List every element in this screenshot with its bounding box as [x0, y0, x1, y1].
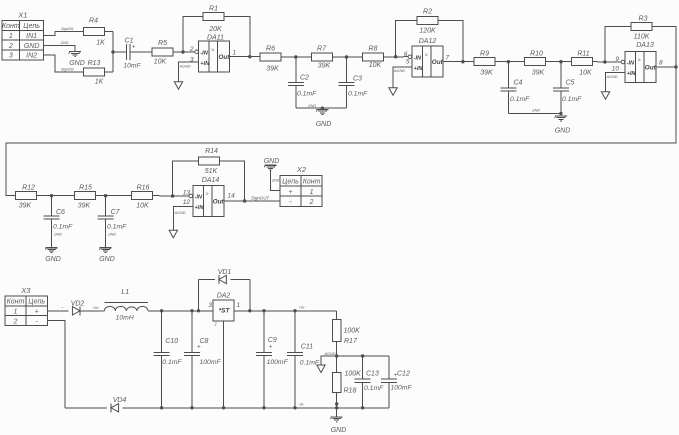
- diode VD4: [111, 403, 119, 412]
- capacitor C7: [98, 216, 114, 219]
- value 0.1mF of C13: [364, 385, 384, 392]
- label R7: [317, 46, 327, 53]
- label GND (C4C5): [555, 128, 571, 135]
- svg-text:R5: R5: [158, 40, 167, 47]
- svg-text:-9v: -9v: [299, 403, 304, 407]
- ground AGND triangle (divider): [317, 365, 325, 373]
- label VD2: [71, 301, 85, 308]
- value 100K of R18: [345, 371, 362, 378]
- svg-text:X2: X2: [296, 165, 307, 174]
- resistor R7: [311, 53, 332, 61]
- wire C3 up: [346, 57, 348, 83]
- node C9 bottom: [262, 406, 265, 409]
- capacitor C1: [126, 44, 130, 60]
- ground AGND triangle (DA11): [174, 82, 182, 90]
- pin 5 label DA12: [406, 59, 410, 66]
- svg-text:C13: C13: [366, 371, 379, 378]
- svg-text:-IN: -IN: [627, 61, 635, 67]
- wire C4-C5 ground bus: [508, 113, 561, 115]
- svg-text:>: >: [638, 58, 641, 64]
- svg-text:1K: 1K: [96, 40, 105, 47]
- wire bottom rail left: [65, 407, 107, 409]
- node DA14 input junction: [171, 194, 174, 197]
- wire R4 to node: [104, 31, 113, 33]
- svg-text:+: +: [288, 189, 292, 196]
- resistor R8: [363, 53, 384, 61]
- svg-text:AGND: AGND: [324, 352, 336, 356]
- svg-text:3: 3: [208, 302, 212, 309]
- node C3 junction: [345, 55, 348, 58]
- wire C9 top: [263, 311, 265, 353]
- svg-text:0.1mF: 0.1mF: [562, 96, 582, 103]
- svg-text:2: 2: [189, 46, 194, 53]
- capacitor C8: [184, 352, 200, 355]
- wire R12 to R15: [37, 195, 75, 197]
- wire feedback R1 right: [224, 17, 250, 57]
- wire X3 minus down: [47, 321, 65, 408]
- svg-text:1K: 1K: [95, 79, 104, 86]
- wire AGND bus right: [337, 355, 389, 357]
- wire AGND stub: [321, 356, 337, 365]
- svg-text:GND: GND: [24, 43, 40, 50]
- wire C12 drop: [388, 356, 390, 379]
- value 0.1mF of C2: [297, 91, 317, 98]
- value 10K of R16: [136, 203, 149, 210]
- label DA2: [217, 292, 231, 299]
- label GND (X1): [69, 60, 85, 67]
- wire VD1 left leg: [198, 280, 200, 311]
- svg-text:10K: 10K: [369, 62, 382, 69]
- svg-text:R10: R10: [530, 51, 543, 58]
- net label +9v (rail): [299, 306, 305, 310]
- svg-text:+IN: +IN: [200, 61, 210, 67]
- svg-text:GND: GND: [272, 179, 280, 183]
- label C6: [56, 209, 65, 216]
- node C6 junction: [50, 194, 53, 197]
- svg-text:10mH: 10mH: [116, 315, 134, 322]
- value 100K of R17: [344, 328, 361, 335]
- net label SignOUT: [251, 195, 269, 200]
- label L1: [121, 289, 129, 296]
- wire DA14 output to X2: [224, 200, 280, 202]
- wire X1 pin3 to R13: [44, 55, 84, 72]
- label R1: [209, 6, 218, 13]
- svg-text:R18: R18: [344, 388, 357, 395]
- resistor R1: [203, 13, 224, 21]
- svg-text:GND: GND: [45, 256, 61, 263]
- svg-text:13: 13: [183, 190, 191, 197]
- svg-text:110K: 110K: [634, 34, 650, 41]
- wire feedback R3 left: [605, 27, 631, 63]
- pin 7 label DA12: [446, 55, 450, 62]
- svg-text:GND: GND: [99, 256, 115, 263]
- wire C11 top: [294, 311, 296, 353]
- node R18 bottom: [335, 406, 338, 409]
- node C5 ground junction: [559, 112, 562, 115]
- ground AGND triangle (DA14): [169, 230, 177, 238]
- label DA11: [207, 35, 224, 42]
- wire L1 to DA2: [148, 310, 213, 312]
- svg-text:AGND: AGND: [174, 211, 186, 215]
- wire C9 bottom: [263, 355, 265, 408]
- node sum junction: [111, 50, 114, 53]
- svg-text:DA14: DA14: [202, 177, 220, 184]
- label C7: [111, 209, 121, 216]
- svg-text:39K: 39K: [318, 63, 331, 70]
- wire feedback R14 right: [220, 161, 245, 201]
- svg-text:+: +: [269, 344, 273, 351]
- value 39K of R12: [19, 203, 32, 210]
- capacitor C5: [553, 88, 569, 91]
- wire DA11 pin3 to AGND: [179, 62, 199, 81]
- svg-text:SignIN1: SignIN1: [61, 27, 74, 31]
- node C13 top: [361, 354, 364, 357]
- wire feedback R3 right: [652, 27, 676, 68]
- wire R16 to DA14: [152, 195, 191, 197]
- node C11 bottom: [293, 406, 296, 409]
- resistor R17: [333, 319, 341, 341]
- svg-text:GND: GND: [331, 427, 347, 434]
- svg-text:R4: R4: [89, 18, 98, 25]
- label C13: [366, 371, 379, 378]
- pin 8 label DA13: [659, 60, 663, 67]
- svg-text:10K: 10K: [136, 203, 149, 210]
- svg-text:Out: Out: [645, 65, 657, 72]
- label R15: [79, 185, 92, 192]
- svg-text:>: >: [211, 47, 214, 53]
- value 39K of R6: [266, 66, 279, 73]
- svg-text:0.1mF: 0.1mF: [53, 224, 73, 231]
- svg-text:1: 1: [310, 189, 314, 196]
- node DA14 output junction: [243, 199, 246, 202]
- svg-text:10: 10: [612, 65, 620, 72]
- diode VD2: [72, 306, 80, 315]
- resistor R9: [474, 58, 495, 66]
- svg-text:GND: GND: [54, 233, 62, 237]
- svg-text:2: 2: [309, 199, 314, 206]
- svg-text:120K: 120K: [419, 28, 436, 35]
- wire R6 to R7: [281, 56, 311, 58]
- svg-text:VD2: VD2: [71, 301, 85, 308]
- plus mark C1: [132, 43, 136, 50]
- svg-text:L1: L1: [121, 289, 129, 296]
- node C7 junction: [104, 194, 107, 197]
- pin 12 label DA14: [183, 199, 191, 206]
- op-amp U DA12: [408, 46, 443, 77]
- svg-text:IN1: IN1: [26, 33, 37, 40]
- svg-text:0.1mF: 0.1mF: [348, 91, 368, 98]
- pin 13 label DA14: [183, 190, 191, 197]
- pin 3 label DA2: [208, 302, 212, 309]
- resistor R2: [417, 17, 438, 25]
- svg-text:Цепь: Цепь: [28, 299, 45, 306]
- wire R17 to AGND node: [336, 342, 338, 373]
- net label AGND (DA11): [179, 65, 191, 69]
- op-amp U DA11: [195, 41, 230, 72]
- capacitor C13: [355, 379, 371, 382]
- connector X3: [5, 286, 47, 326]
- wire feedback R2 right: [438, 21, 463, 62]
- wire R7 to R8: [332, 56, 362, 58]
- wire C6 up: [51, 196, 53, 216]
- svg-text:GND: GND: [108, 233, 116, 237]
- svg-text:3: 3: [9, 53, 13, 60]
- value 10K of R11: [579, 70, 592, 77]
- value 39K of R15: [78, 203, 91, 210]
- wire C11 bottom: [294, 355, 296, 408]
- svg-text:+: +: [132, 43, 136, 50]
- wire C4 up: [507, 62, 509, 88]
- label GND (C6): [45, 256, 61, 263]
- wire C8 top: [191, 311, 193, 353]
- wire feedback R14 left: [173, 161, 199, 196]
- svg-text:*ST: *ST: [219, 307, 231, 314]
- svg-text:C11: C11: [301, 344, 313, 351]
- node DA2 pin2 bottom: [222, 406, 225, 409]
- value 1K of R13: [95, 79, 104, 86]
- svg-text:39K: 39K: [266, 66, 279, 73]
- node DA11 output junction: [248, 55, 251, 58]
- svg-text:100mF: 100mF: [200, 359, 222, 366]
- wire C6 down: [51, 219, 53, 247]
- ground GND (X2): [264, 165, 277, 170]
- svg-text:39K: 39K: [480, 70, 493, 77]
- diode VD1: [219, 275, 227, 284]
- plus mark C12: [394, 372, 398, 379]
- value 39K of R7: [318, 63, 331, 70]
- label C11: [301, 344, 313, 351]
- svg-text:-IN: -IN: [200, 50, 208, 56]
- wire feedback R1 left: [183, 17, 203, 52]
- node C11 junction top: [293, 309, 296, 312]
- label R14: [205, 148, 218, 155]
- node C4 junction: [507, 60, 510, 63]
- wire C2 down: [295, 86, 297, 109]
- svg-text:2: 2: [13, 318, 18, 325]
- net label AGND (DA14): [174, 211, 186, 215]
- svg-text:8: 8: [659, 60, 663, 67]
- svg-text:10K: 10K: [154, 59, 167, 66]
- net label GND (C4C5): [532, 109, 540, 113]
- svg-text:0.1mF: 0.1mF: [364, 385, 384, 392]
- value 0.1mF of C11: [300, 360, 320, 367]
- label R8: [369, 46, 378, 53]
- svg-text:R16: R16: [137, 185, 150, 192]
- svg-text:C5: C5: [566, 79, 575, 86]
- svg-text:39K: 39K: [19, 203, 32, 210]
- wire route right edge down: [6, 67, 676, 196]
- resistor R12: [16, 192, 37, 200]
- svg-text:Out: Out: [219, 54, 231, 61]
- label R3: [639, 16, 648, 23]
- connector X1: [2, 10, 44, 60]
- resistor R16: [131, 192, 152, 200]
- op-amp U DA14: [189, 186, 224, 217]
- wire DA13 pin10 to AGND: [606, 73, 626, 92]
- svg-text:10mF: 10mF: [123, 63, 141, 70]
- pin 1 label DA11: [233, 50, 237, 57]
- plus mark C8: [197, 344, 201, 351]
- label R10: [530, 51, 543, 58]
- svg-text:VD1: VD1: [218, 269, 232, 276]
- svg-text:DA12: DA12: [419, 38, 437, 45]
- net label GND (C2C3): [308, 104, 316, 108]
- node C2 junction: [294, 55, 297, 58]
- capacitor C4: [500, 88, 516, 91]
- label R6: [266, 46, 275, 53]
- node C10 junction top: [160, 309, 163, 312]
- wire VD1 right leg: [249, 280, 251, 311]
- svg-text:DA11: DA11: [207, 35, 224, 42]
- value 0.1mF of C4: [510, 96, 530, 103]
- capacitor C2: [288, 82, 304, 85]
- svg-text:100K: 100K: [344, 328, 361, 335]
- node AGND divider: [335, 354, 338, 357]
- svg-text:Конт: Конт: [2, 23, 20, 30]
- value 10mH of L1: [116, 315, 134, 322]
- svg-text:-IN: -IN: [414, 55, 422, 61]
- svg-text:R15: R15: [79, 185, 92, 192]
- resistor R14: [199, 157, 220, 165]
- value 120K of R2: [419, 28, 436, 35]
- resistor R18: [333, 372, 341, 392]
- ground GND (X1): [69, 52, 82, 57]
- svg-text:0.1mF: 0.1mF: [297, 91, 317, 98]
- label GND (C2C3): [316, 121, 332, 128]
- label C1: [125, 38, 134, 45]
- svg-text:51K: 51K: [205, 168, 218, 175]
- svg-text:Цепь: Цепь: [282, 178, 299, 185]
- node C5 junction: [559, 60, 562, 63]
- wire C5 up: [560, 62, 562, 88]
- svg-text:100mF: 100mF: [267, 359, 289, 366]
- wire R13 to node: [104, 71, 113, 73]
- wire DA2 out to corner: [234, 310, 337, 312]
- label R11: [577, 51, 589, 58]
- svg-text:R6: R6: [266, 46, 275, 53]
- wire R15 to R16: [96, 195, 132, 197]
- label R18: [344, 388, 357, 395]
- svg-text:GND: GND: [532, 109, 540, 113]
- wire R8 to DA12: [384, 56, 409, 58]
- label R16: [137, 185, 150, 192]
- pin 10 label DA13: [612, 65, 620, 72]
- core line L1: [104, 302, 147, 304]
- svg-text:0.1mF: 0.1mF: [107, 224, 127, 231]
- svg-text:R2: R2: [423, 9, 432, 16]
- label DA12: [419, 38, 437, 45]
- svg-text:>: >: [206, 192, 209, 198]
- svg-text:+9v: +9v: [299, 306, 305, 310]
- svg-text:C3: C3: [353, 76, 362, 83]
- svg-text:39K: 39K: [78, 203, 91, 210]
- capacitor C12: [381, 379, 397, 382]
- svg-text:6: 6: [404, 51, 408, 58]
- net label AGND (DA12): [393, 69, 405, 73]
- inductor L1: [104, 306, 147, 310]
- wire C1 to R5: [130, 51, 152, 53]
- pin 2 label DA2: [213, 322, 217, 327]
- net label GND (X1 pin2): [61, 41, 69, 45]
- label C3: [353, 76, 362, 83]
- svg-text:DA2: DA2: [217, 292, 231, 299]
- wire X1 pin1 to R4: [44, 32, 84, 36]
- value 1K of R4: [96, 40, 105, 47]
- svg-text:1: 1: [233, 50, 237, 57]
- net label minus: [62, 305, 64, 311]
- wire C2 up: [295, 57, 297, 83]
- svg-text:Конт: Конт: [303, 178, 321, 185]
- value 100mF of C12: [391, 385, 413, 392]
- pin 6 label DA12: [404, 51, 408, 58]
- net label GND (X2 wire): [272, 179, 280, 183]
- svg-text:1: 1: [237, 302, 241, 309]
- label VD4: [113, 397, 127, 404]
- capacitor C10: [154, 352, 170, 355]
- wire DA13 output: [656, 66, 676, 68]
- svg-text:C7: C7: [111, 209, 121, 216]
- wire DA14 pin12 to AGND: [173, 207, 193, 231]
- value 39K of R10: [532, 70, 545, 77]
- resistor R10: [524, 58, 545, 66]
- wire GND stub: [336, 408, 338, 417]
- label R9: [480, 51, 489, 58]
- label DA13: [636, 42, 654, 49]
- pin 1 label DA2: [237, 302, 241, 309]
- svg-text:AGND: AGND: [393, 69, 405, 73]
- value 100mF of C9: [267, 359, 289, 366]
- wire GND to X2 pin1: [271, 170, 280, 190]
- svg-text:GND: GND: [555, 128, 571, 135]
- capacitor C3: [339, 82, 355, 85]
- wire C4 down: [507, 91, 509, 113]
- svg-text:R14: R14: [205, 148, 218, 155]
- text ST inside DA2: [219, 307, 231, 314]
- pin 2 label DA11: [189, 46, 194, 53]
- svg-text:Out: Out: [432, 59, 444, 66]
- svg-text:2: 2: [8, 43, 13, 50]
- label GND (C7): [99, 256, 115, 263]
- svg-text:-IN: -IN: [195, 195, 203, 201]
- node DA13 input junction: [603, 60, 606, 63]
- net label GND (C6): [54, 233, 62, 237]
- svg-text:AGND: AGND: [606, 75, 618, 79]
- value 51K of R14: [205, 168, 218, 175]
- wire C8 bottom: [191, 355, 193, 408]
- net label +9v: [93, 306, 99, 310]
- net label AGND (divider): [324, 352, 336, 356]
- value 10K of R8: [369, 62, 382, 69]
- wire C12 bottom: [388, 382, 390, 407]
- node C13 bottom: [361, 406, 364, 409]
- resistor R13: [83, 68, 104, 76]
- svg-text:GND: GND: [316, 121, 332, 128]
- net label GND (C7): [108, 233, 116, 237]
- capacitor C11: [287, 352, 303, 355]
- svg-text:0.1mF: 0.1mF: [510, 96, 530, 103]
- svg-text:9: 9: [615, 56, 619, 63]
- wire R9 to R10: [495, 61, 524, 63]
- resistor R11: [571, 58, 592, 66]
- wire node to C1: [113, 51, 126, 53]
- wire C5 down: [560, 91, 562, 113]
- value 0.1mF of C6: [53, 224, 73, 231]
- wire VD1 top left: [199, 279, 216, 281]
- pin 9 label DA13: [615, 56, 619, 63]
- node VD1 left junction: [197, 309, 200, 312]
- wire DA12 pin5 to AGND: [393, 67, 412, 87]
- capacitor C9: [256, 352, 272, 355]
